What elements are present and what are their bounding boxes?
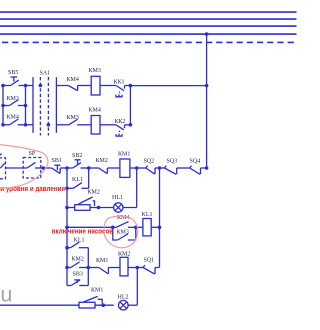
contact KM4 NO parallel: [113, 222, 136, 228]
coil KL1: [136, 219, 160, 236]
thermal contact KK2: [116, 125, 130, 136]
svg-text:КМ2: КМ2: [72, 257, 84, 263]
contact KM2 NC main rung: [89, 168, 120, 174]
dashed control bus: [2, 41, 297, 43]
wire left column vertical A: [2, 86, 4, 126]
wire rung C mid: [26, 124, 34, 126]
bus line L1: [0, 11, 297, 13]
contact KM4 rung C: [3, 119, 26, 125]
wire junction vertical kk1-kk2: [129, 86, 131, 125]
contact KL1 bypass branch: [67, 168, 89, 188]
svg-text:КМ2: КМ2: [118, 252, 130, 258]
svg-text:SQ4: SQ4: [190, 159, 201, 165]
wire left column vertical B: [25, 86, 27, 126]
resistor contact KM2 branch: [67, 197, 114, 210]
sensor box SP dashed: [23, 158, 43, 179]
svg-text:КМ3: КМ3: [7, 96, 19, 102]
svg-text:КК1: КК1: [114, 80, 125, 86]
limit switch SQ4: [190, 166, 207, 175]
svg-text:SQ1: SQ1: [144, 258, 155, 264]
wire to SB1: [43, 167, 51, 169]
svg-text:КМ3: КМ3: [89, 68, 101, 74]
resistor contact KM1 bottom: [79, 296, 114, 308]
vertical to bottom rung: [136, 268, 138, 306]
svg-text:ru: ru: [0, 283, 12, 307]
sensor box 1 dashed: [0, 158, 23, 179]
bottom rung wire: [0, 304, 79, 306]
wire rung A segments: [3, 85, 11, 87]
contact KL1 lower: [67, 242, 88, 248]
pushbutton SB5: [11, 77, 19, 86]
svg-text:KL1: KL1: [72, 177, 83, 183]
lamp HL2: [119, 300, 138, 310]
thermal contact KK1: [116, 86, 130, 97]
wire rung A right of SA1: [56, 85, 68, 87]
red annotation text level sensors: [0, 186, 65, 193]
svg-text:КМ3: КМ3: [67, 115, 79, 121]
svg-text:SQ2: SQ2: [144, 159, 155, 165]
svg-text:КМ4: КМ4: [89, 108, 101, 114]
svg-text:KL1: KL1: [74, 238, 85, 244]
svg-text:КМ3: КМ3: [117, 230, 129, 236]
wire right return vertical: [206, 34, 208, 168]
svg-text:SB5: SB5: [8, 70, 18, 76]
pink annotation ellipse pump contacts: [104, 216, 138, 248]
svg-text:HL2: HL2: [118, 295, 129, 301]
wire rung1 to return: [130, 85, 206, 87]
svg-text:КК2: КК2: [115, 119, 126, 125]
red annotation text pump on: [52, 228, 113, 235]
contact KM2 NO lower: [67, 262, 88, 268]
left branch vertical x67: [66, 168, 68, 286]
coil KM4: [91, 116, 116, 135]
relay KL1 coil branch: [67, 226, 113, 228]
right mid vertical x159: [159, 168, 161, 268]
limit switch SQ3: [160, 166, 190, 175]
svg-text:SB3: SB3: [73, 272, 83, 278]
coil KM3: [91, 76, 116, 95]
pushbutton SB3: [67, 280, 88, 286]
contact KM3 rung B: [3, 100, 26, 106]
contact KM1 NC lower rung: [88, 268, 120, 274]
svg-text:КМ1: КМ1: [118, 152, 130, 158]
svg-text:SA1: SA1: [40, 71, 51, 77]
svg-text:HL1: HL1: [112, 195, 123, 201]
contact KM4 NC rung A: [68, 86, 91, 91]
svg-text:КМ1: КМ1: [96, 258, 108, 264]
pink annotation ellipse sensors: [0, 144, 48, 189]
svg-text:КМ2: КМ2: [96, 158, 108, 164]
svg-text:КМ1: КМ1: [91, 288, 103, 294]
pushbutton SB2 NO: [67, 160, 89, 168]
bus line L3: [0, 25, 297, 27]
bus line N: [0, 33, 297, 35]
svg-text:КМ2: КМ2: [88, 190, 100, 196]
limit switch SQ1: [137, 265, 159, 274]
bus line L2: [0, 18, 297, 20]
svg-text:KL1: KL1: [142, 212, 153, 218]
svg-text:SB2: SB2: [72, 153, 82, 159]
contact KM3 NO rung C: [69, 119, 92, 125]
svg-text:датчики уровня и давления: датчики уровня и давления: [0, 186, 65, 193]
pushbutton SB1 NC: [52, 165, 67, 173]
svg-text:SB1: SB1: [52, 158, 62, 164]
right vertical of parallel group: [87, 248, 89, 286]
limit switch SQ2: [137, 166, 160, 175]
lamp HL1: [114, 168, 137, 212]
selector switch SA1: [33, 77, 56, 136]
svg-text:КМ4: КМ4: [67, 77, 79, 83]
contact KM3 NO parallel: [113, 227, 136, 240]
coil KM2: [120, 257, 137, 276]
svg-text:КМ4: КМ4: [7, 115, 19, 121]
label fragment box1: [0, 154, 2, 156]
svg-text:SQ3: SQ3: [167, 159, 178, 165]
svg-text:SP: SP: [29, 151, 36, 157]
coil KM1: [120, 159, 137, 177]
